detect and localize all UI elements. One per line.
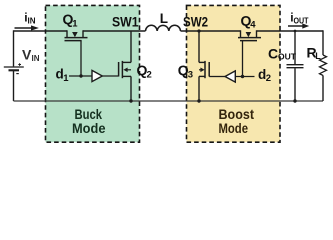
wire: top rail SW1 segment (Q1 to inductor) <box>83 30 146 32</box>
svg-text:SW1: SW1 <box>112 14 139 30</box>
label Q1 <box>63 11 79 29</box>
svg-text:4: 4 <box>250 20 256 31</box>
node Q3 ground dot <box>197 99 200 102</box>
label d2 <box>258 67 271 84</box>
label Q4 <box>241 12 257 30</box>
label Buck Mode <box>72 106 106 136</box>
node SW2 rail dot <box>197 29 200 32</box>
label Boost Mode <box>219 106 255 136</box>
node: Q1 gate junction dot <box>79 74 82 77</box>
battery VIN <box>4 63 24 73</box>
svg-text:L: L <box>160 11 168 26</box>
wire: left VIN branch lower <box>13 71 15 101</box>
wire: right RL branch upper <box>322 30 324 55</box>
wire: driver d2 input lead <box>235 76 254 78</box>
wire: driver d1 output to Q2 gate <box>102 75 118 77</box>
transistor Q4 (boost high-side MOSFET) <box>238 30 261 40</box>
label COUT <box>268 46 296 62</box>
svg-text:L: L <box>315 51 321 61</box>
label RL <box>307 45 322 62</box>
node: Q4 gate junction dot <box>241 75 244 78</box>
current arrow iIN <box>15 25 39 30</box>
label VIN <box>22 47 40 64</box>
node COUT rail dot <box>294 30 297 33</box>
svg-text:IN: IN <box>32 54 40 63</box>
label d1 <box>56 67 70 84</box>
label iOUT <box>290 10 308 25</box>
wire: top rail output segment (Q4 to RL corner) <box>257 30 324 32</box>
node SW1 junction (Q2 drain to rail) <box>130 31 132 62</box>
svg-text:C: C <box>268 46 278 62</box>
svg-text:Mode: Mode <box>219 120 249 136</box>
svg-text:2: 2 <box>147 69 152 80</box>
capacitor COUT <box>287 30 304 101</box>
node COUT ground dot <box>293 99 296 102</box>
transistor Q2 (buck low-side MOSFET) <box>119 61 131 78</box>
wire: driver d1 input lead <box>69 75 92 77</box>
wire: top rail left segment (VIN to Q1) <box>14 30 68 32</box>
wire: left VIN branch upper <box>13 30 15 66</box>
svg-text:2: 2 <box>266 73 271 84</box>
label Q2 <box>137 62 152 80</box>
svg-text:V: V <box>22 47 32 63</box>
svg-text:IN: IN <box>28 17 36 26</box>
transistor Q3 (boost low-side MOSFET) <box>199 61 209 78</box>
svg-text:Mode: Mode <box>72 120 106 136</box>
inductor L <box>146 25 181 31</box>
wire: Q3 source to ground rail <box>198 76 200 101</box>
label Q3 <box>178 62 193 80</box>
wire: top rail SW2 segment (inductor to Q4) <box>181 30 241 32</box>
buck mode region box <box>46 5 140 142</box>
boost mode region box <box>187 5 281 142</box>
label iIN <box>24 10 35 25</box>
current arrow iOUT <box>288 23 309 28</box>
node SW2 junction (Q3 drain to rail) <box>198 31 200 62</box>
wire: Q1 gate lead down to driver node <box>80 41 82 76</box>
wire: Q3 gate to driver d2 <box>209 76 225 78</box>
transistor Q1 (buck high-side MOSFET) <box>65 30 88 40</box>
svg-text:OUT: OUT <box>278 53 296 62</box>
driver d1 buffer <box>92 70 102 81</box>
svg-text:1: 1 <box>63 73 69 84</box>
wire: Q4 gate lead down to driver node <box>242 41 244 77</box>
driver d2 buffer <box>225 71 235 82</box>
resistor RL <box>320 55 327 75</box>
svg-text:SW2: SW2 <box>183 14 208 30</box>
svg-text:1: 1 <box>72 18 78 29</box>
svg-text:3: 3 <box>188 69 193 80</box>
wire: bottom ground rail <box>14 100 324 102</box>
node Q2 ground dot <box>129 99 132 102</box>
wire: Q2 source to ground rail <box>130 76 132 101</box>
svg-text:OUT: OUT <box>294 17 309 26</box>
wire: right RL branch lower <box>322 75 324 101</box>
